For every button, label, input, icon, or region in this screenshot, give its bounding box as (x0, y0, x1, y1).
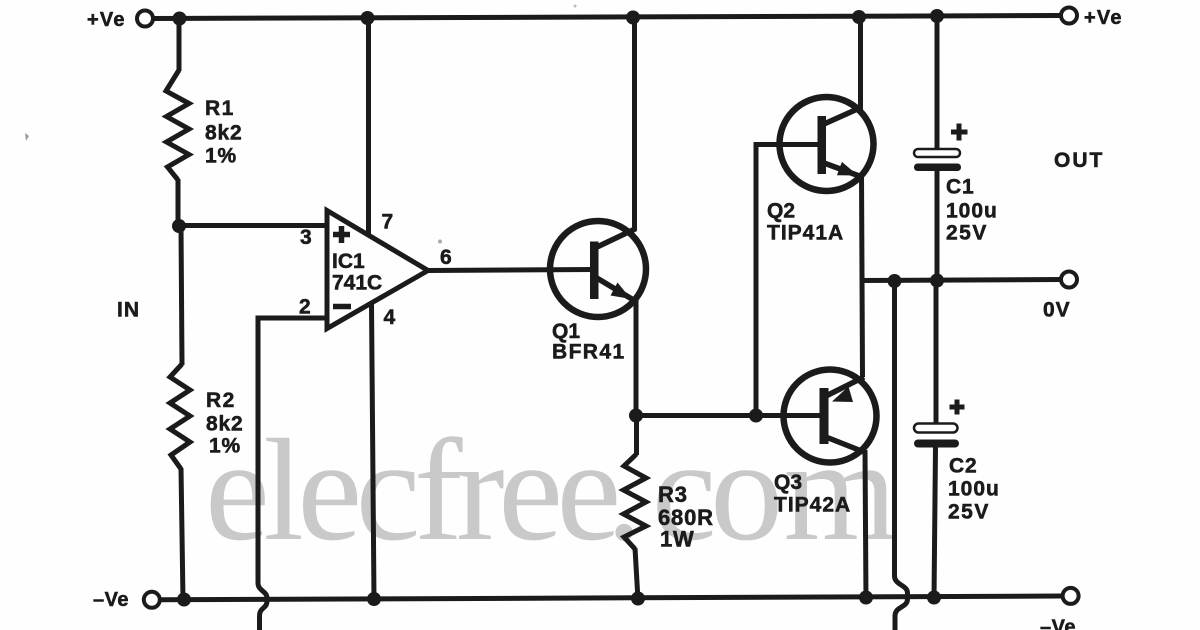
svg-text:IC1: IC1 (332, 250, 365, 273)
node A junction dot (172, 219, 186, 233)
transistor Q3 TIP42A (774, 370, 877, 517)
op-amp U1 triangle IC1 741C (327, 211, 428, 329)
svg-text:25V: 25V (948, 501, 990, 524)
wire Q3 collector to bottom rail (865, 450, 866, 600)
svg-text:4: 4 (384, 306, 396, 329)
wire bottom rail -Ve (161, 596, 1062, 600)
wire Q1 collector to top rail (632, 18, 637, 231)
svg-text:IN: IN (117, 299, 140, 322)
scan speck near 6 (438, 240, 442, 244)
terminal -Ve left (93, 589, 160, 611)
wire pin6 output (428, 270, 594, 271)
svg-text:8k2: 8k2 (206, 413, 243, 436)
svg-text:R1: R1 (205, 97, 235, 120)
resistor R1 (166, 70, 242, 180)
svg-text:3: 3 (300, 226, 312, 249)
junction dot 0V cap column (930, 274, 944, 288)
junction dot drive node (629, 409, 643, 423)
junction dot top rail left column (173, 12, 187, 26)
svg-text:1%: 1% (209, 435, 241, 458)
svg-text:–Ve: –Ve (1040, 617, 1076, 630)
junction dot drive node Q2 base column (749, 409, 763, 423)
svg-text:741C: 741C (332, 272, 382, 295)
svg-text:TIP42A: TIP42A (774, 494, 851, 517)
junction dot top rail C1 column (930, 9, 944, 23)
junction dot bottom rail C2 column (927, 591, 941, 605)
wire Q2 base column (756, 145, 820, 417)
junction dot top rail Q2 collector (852, 10, 866, 24)
junction dot bottom rail Q3 collector (859, 591, 873, 605)
svg-text:6: 6 (440, 246, 452, 269)
svg-text:C1: C1 (946, 176, 974, 199)
terminal -Ve right (1040, 588, 1079, 630)
svg-text:R3: R3 (658, 482, 688, 507)
wire Q2 emitter to Q3 emitter (862, 175, 863, 377)
wire pin3 input (179, 223, 327, 228)
svg-text:R2: R2 (206, 389, 236, 412)
wire top rail +Ve (154, 16, 1060, 19)
svg-text:2: 2 (299, 296, 311, 319)
svg-text:+Ve: +Ve (87, 9, 126, 31)
transistor Q2 TIP41A (767, 97, 874, 245)
svg-text:1W: 1W (660, 527, 695, 552)
wire pin4 to bottom rail (372, 304, 375, 600)
junction dot bottom rail R3 (631, 592, 645, 606)
capacitor C1 100u 25V (914, 16, 998, 282)
svg-text:–Ve: –Ve (93, 589, 129, 611)
scan speck left (25, 133, 29, 141)
terminal 0V (1043, 272, 1077, 322)
wire drive node to Q3 base (636, 413, 822, 418)
svg-text:100u: 100u (948, 478, 1000, 501)
svg-text:100u: 100u (946, 200, 998, 223)
wire node A to R2 (181, 226, 182, 365)
svg-text:1%: 1% (205, 145, 237, 168)
scan speck top middle (574, 5, 577, 8)
junction dot top rail pin7 column (361, 11, 375, 25)
svg-text:0V: 0V (1043, 299, 1071, 322)
svg-text:Q3: Q3 (774, 471, 802, 494)
svg-text:C2: C2 (949, 455, 977, 478)
wire R1 to node A (176, 179, 181, 227)
wire pin2 input with jog through bottom rail (258, 318, 327, 630)
wire left column upper lead (177, 19, 182, 72)
wire Q1 emitter down (634, 300, 639, 416)
terminal +Ve left (87, 9, 153, 31)
junction dot bottom rail pin4 (367, 592, 381, 606)
wire 0V drop line with jog through bottom rail (895, 281, 908, 630)
svg-text:8k2: 8k2 (205, 122, 242, 145)
svg-text:+Ve: +Ve (1084, 7, 1123, 29)
junction dot top rail Q1 collector (626, 11, 640, 25)
wire R2 to bottom rail (181, 468, 183, 600)
svg-text:OUT: OUT (1054, 149, 1104, 172)
wire pin7 to top rail (366, 18, 371, 236)
capacitor C2 100u 25V (914, 280, 1000, 599)
transistor Q1 BFR41 (550, 221, 646, 364)
terminal +Ve right (1061, 7, 1123, 29)
wire Q2 collector to top rail (858, 17, 863, 110)
junction dot 0V drop (888, 274, 902, 288)
wire 0V output line (862, 280, 1062, 281)
svg-text:25V: 25V (946, 222, 988, 245)
svg-text:TIP41A: TIP41A (767, 222, 844, 245)
junction dot bottom rail left column (177, 593, 191, 607)
svg-text:BFR41: BFR41 (552, 341, 626, 364)
resistor R3 680R 1W (624, 415, 714, 600)
resistor R2 (170, 364, 243, 469)
svg-text:Q2: Q2 (767, 200, 795, 223)
svg-text:7: 7 (382, 211, 394, 234)
